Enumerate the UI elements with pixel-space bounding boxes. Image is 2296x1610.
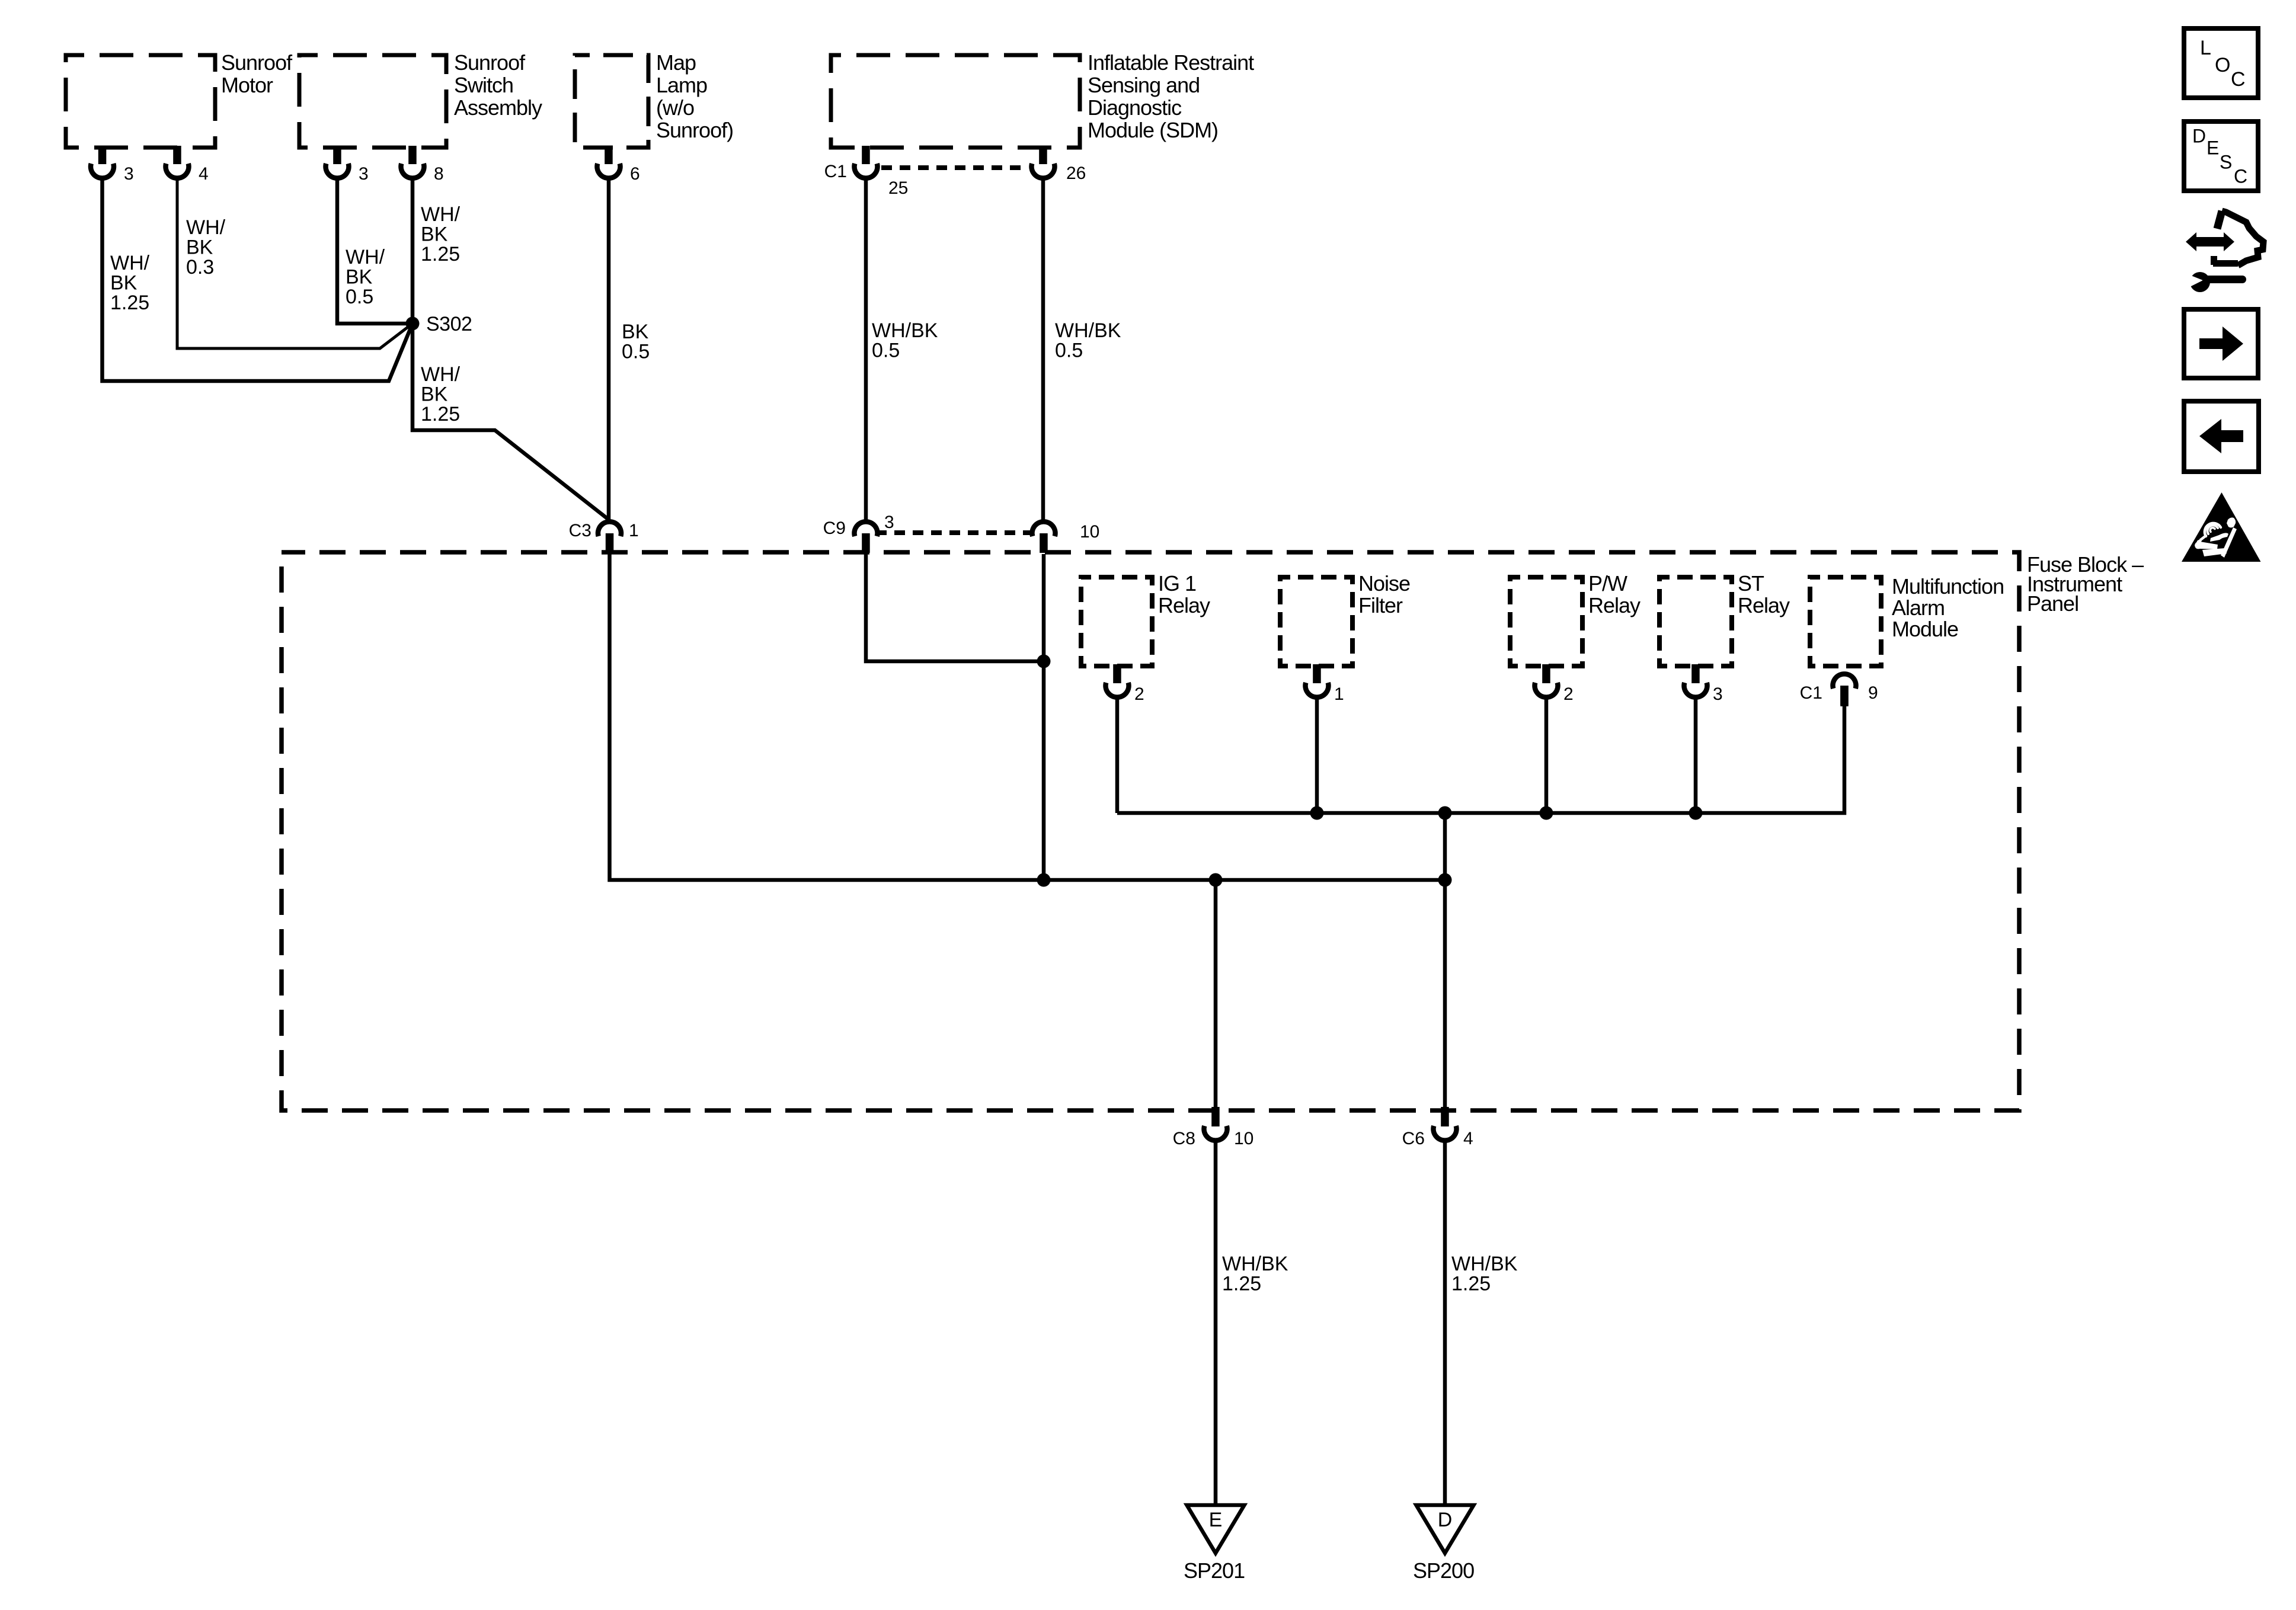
svg-text:Sunroof: Sunroof bbox=[454, 50, 526, 75]
svg-text:26: 26 bbox=[1066, 164, 1086, 183]
svg-text:3: 3 bbox=[1713, 684, 1723, 704]
svg-text:Noise: Noise bbox=[1358, 571, 1410, 596]
svg-text:WH/BK: WH/BK bbox=[1055, 319, 1121, 342]
svg-text:WH/: WH/ bbox=[110, 252, 150, 274]
svg-text:S: S bbox=[2220, 151, 2232, 172]
svg-text:8: 8 bbox=[434, 164, 444, 184]
svg-text:Multifunction: Multifunction bbox=[1892, 574, 2004, 598]
svg-text:C3: C3 bbox=[569, 521, 591, 540]
svg-text:C: C bbox=[2234, 165, 2247, 187]
svg-text:D: D bbox=[2192, 125, 2206, 146]
svg-text:Filter: Filter bbox=[1358, 593, 1403, 617]
svg-text:C1: C1 bbox=[1800, 683, 1822, 703]
svg-text:6: 6 bbox=[630, 164, 640, 184]
svg-text:1.25: 1.25 bbox=[110, 292, 149, 314]
svg-text:0.5: 0.5 bbox=[622, 340, 650, 363]
svg-text:Sensing and: Sensing and bbox=[1088, 73, 1200, 97]
svg-text:WH/BK: WH/BK bbox=[1222, 1253, 1288, 1275]
svg-text:BK: BK bbox=[421, 223, 448, 245]
svg-text:Module: Module bbox=[1892, 617, 1958, 641]
svg-text:0.5: 0.5 bbox=[346, 286, 373, 308]
svg-text:Motor: Motor bbox=[221, 73, 273, 97]
svg-text:WH/BK: WH/BK bbox=[872, 319, 938, 342]
svg-text:C1: C1 bbox=[824, 162, 847, 181]
svg-text:1.25: 1.25 bbox=[421, 243, 460, 265]
svg-text:BK: BK bbox=[186, 236, 213, 258]
svg-text:Relay: Relay bbox=[1738, 593, 1790, 617]
svg-text:1: 1 bbox=[1334, 684, 1344, 704]
svg-text:3: 3 bbox=[359, 164, 369, 184]
svg-text:P/W: P/W bbox=[1588, 571, 1627, 596]
svg-text:(w/o: (w/o bbox=[656, 95, 694, 120]
svg-text:Alarm: Alarm bbox=[1892, 596, 1945, 620]
svg-text:L: L bbox=[2200, 37, 2211, 59]
svg-text:1.25: 1.25 bbox=[1222, 1272, 1261, 1295]
svg-text:BK: BK bbox=[346, 265, 373, 288]
svg-text:2: 2 bbox=[1563, 684, 1574, 704]
svg-text:10: 10 bbox=[1080, 522, 1099, 542]
svg-text:25: 25 bbox=[888, 178, 908, 198]
svg-text:Relay: Relay bbox=[1588, 593, 1641, 617]
svg-text:9: 9 bbox=[1868, 683, 1878, 703]
svg-text:Inflatable Restraint: Inflatable Restraint bbox=[1088, 50, 1254, 75]
svg-text:E: E bbox=[1209, 1509, 1223, 1531]
svg-text:Panel: Panel bbox=[2027, 591, 2078, 616]
svg-text:WH/: WH/ bbox=[186, 216, 226, 239]
svg-text:0.5: 0.5 bbox=[872, 339, 900, 361]
svg-text:1.25: 1.25 bbox=[421, 403, 460, 425]
svg-text:Switch: Switch bbox=[454, 73, 513, 97]
svg-text:10: 10 bbox=[1234, 1129, 1253, 1148]
svg-text:WH/: WH/ bbox=[346, 246, 385, 268]
svg-text:Sunroof): Sunroof) bbox=[656, 118, 733, 142]
svg-text:Module (SDM): Module (SDM) bbox=[1088, 118, 1218, 142]
svg-text:E: E bbox=[2207, 137, 2219, 158]
svg-text:Assembly: Assembly bbox=[454, 95, 542, 120]
svg-text:C: C bbox=[2231, 68, 2246, 91]
svg-text:3: 3 bbox=[884, 513, 894, 532]
svg-text:3: 3 bbox=[124, 164, 134, 184]
svg-text:2: 2 bbox=[1134, 684, 1144, 704]
svg-text:Relay: Relay bbox=[1158, 593, 1210, 617]
svg-text:D: D bbox=[1438, 1509, 1453, 1531]
svg-text:Diagnostic: Diagnostic bbox=[1088, 95, 1182, 120]
svg-text:1.25: 1.25 bbox=[1451, 1272, 1491, 1295]
svg-text:SP201: SP201 bbox=[1184, 1558, 1245, 1583]
svg-text:4: 4 bbox=[199, 164, 209, 184]
svg-text:C6: C6 bbox=[1402, 1129, 1425, 1148]
svg-text:4: 4 bbox=[1463, 1129, 1473, 1148]
svg-text:0.3: 0.3 bbox=[186, 256, 214, 279]
svg-text:S302: S302 bbox=[426, 313, 472, 335]
svg-text:1: 1 bbox=[629, 521, 639, 540]
svg-text:ST: ST bbox=[1738, 571, 1764, 596]
svg-text:IG 1: IG 1 bbox=[1158, 571, 1196, 596]
svg-text:O: O bbox=[2215, 54, 2230, 76]
svg-text:WH/: WH/ bbox=[421, 203, 461, 226]
svg-text:WH/: WH/ bbox=[421, 363, 461, 386]
svg-text:BK: BK bbox=[110, 271, 137, 294]
svg-text:SP200: SP200 bbox=[1413, 1558, 1474, 1583]
svg-text:Sunroof: Sunroof bbox=[221, 50, 293, 75]
svg-text:C8: C8 bbox=[1173, 1129, 1195, 1148]
svg-text:BK: BK bbox=[421, 383, 448, 405]
svg-text:WH/BK: WH/BK bbox=[1451, 1253, 1518, 1275]
svg-text:Map: Map bbox=[656, 50, 696, 75]
svg-text:BK: BK bbox=[622, 321, 649, 343]
svg-text:0.5: 0.5 bbox=[1055, 339, 1083, 361]
svg-text:C9: C9 bbox=[823, 518, 846, 538]
svg-text:Lamp: Lamp bbox=[656, 73, 707, 97]
